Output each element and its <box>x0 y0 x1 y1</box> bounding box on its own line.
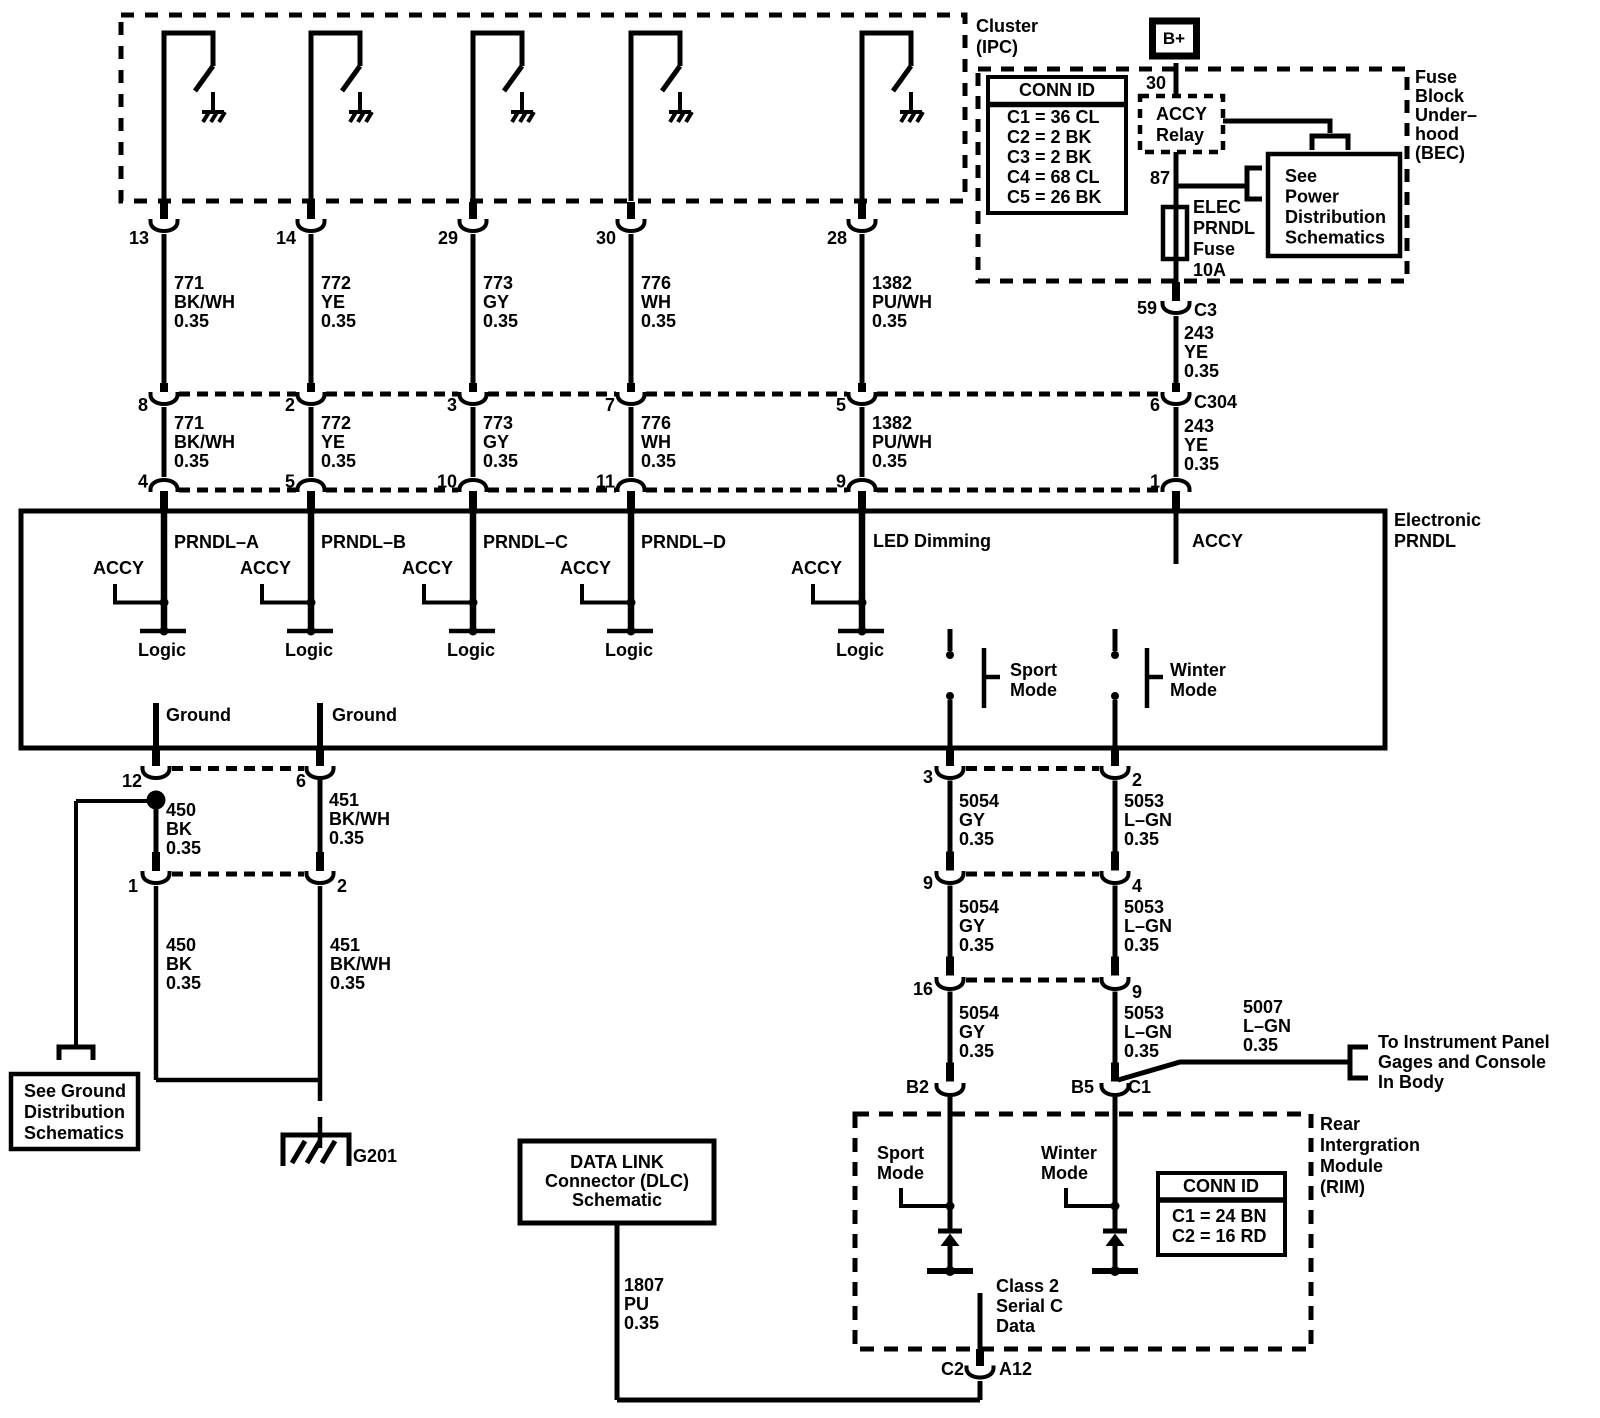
svg-text:Power: Power <box>1285 187 1339 207</box>
svg-text:BK/WH: BK/WH <box>330 954 391 974</box>
svg-text:Mode: Mode <box>877 1163 924 1183</box>
svg-text:4: 4 <box>1132 876 1142 896</box>
svg-text:6: 6 <box>1150 395 1160 415</box>
svg-text:C5 = 26 BK: C5 = 26 BK <box>1007 187 1102 207</box>
svg-text:ACCY: ACCY <box>1192 531 1243 551</box>
svg-text:Logic: Logic <box>285 640 333 660</box>
svg-text:771: 771 <box>174 413 204 433</box>
svg-text:0.35: 0.35 <box>174 311 209 331</box>
svg-text:0.35: 0.35 <box>641 451 676 471</box>
svg-text:0.35: 0.35 <box>1124 829 1159 849</box>
svg-text:30: 30 <box>596 228 616 248</box>
svg-text:L–GN: L–GN <box>1124 1022 1172 1042</box>
svg-text:PRNDL: PRNDL <box>1394 531 1456 551</box>
svg-text:1382: 1382 <box>872 413 912 433</box>
svg-text:BK: BK <box>166 819 192 839</box>
svg-text:B+: B+ <box>1163 29 1185 48</box>
svg-text:0.35: 0.35 <box>321 451 356 471</box>
svg-text:771: 771 <box>174 273 204 293</box>
svg-text:Class 2: Class 2 <box>996 1276 1059 1296</box>
svg-text:BK: BK <box>166 954 192 974</box>
svg-text:Connector (DLC): Connector (DLC) <box>545 1171 689 1191</box>
svg-text:C1 = 36 CL: C1 = 36 CL <box>1007 107 1100 127</box>
svg-text:Logic: Logic <box>447 640 495 660</box>
svg-text:C2: C2 <box>941 1359 964 1379</box>
svg-text:YE: YE <box>1184 342 1208 362</box>
svg-text:To Instrument Panel: To Instrument Panel <box>1378 1032 1550 1052</box>
svg-text:0.35: 0.35 <box>1184 361 1219 381</box>
svg-text:772: 772 <box>321 413 351 433</box>
svg-text:14: 14 <box>276 228 296 248</box>
svg-text:5053: 5053 <box>1124 1003 1164 1023</box>
svg-text:16: 16 <box>913 979 933 999</box>
svg-text:PRNDL–C: PRNDL–C <box>483 532 568 552</box>
svg-text:6: 6 <box>296 771 306 791</box>
svg-text:Logic: Logic <box>138 640 186 660</box>
svg-text:YE: YE <box>1184 435 1208 455</box>
svg-text:29: 29 <box>438 228 458 248</box>
svg-text:CONN ID: CONN ID <box>1019 80 1095 100</box>
svg-text:0.35: 0.35 <box>1184 454 1219 474</box>
svg-text:772: 772 <box>321 273 351 293</box>
svg-text:GY: GY <box>483 432 509 452</box>
svg-text:5: 5 <box>285 472 295 492</box>
svg-text:PU/WH: PU/WH <box>872 432 932 452</box>
svg-text:776: 776 <box>641 273 671 293</box>
svg-text:Rear: Rear <box>1320 1114 1360 1134</box>
svg-text:WH: WH <box>641 432 671 452</box>
svg-text:0.35: 0.35 <box>959 1041 994 1061</box>
svg-text:243: 243 <box>1184 323 1214 343</box>
svg-text:0.35: 0.35 <box>166 838 201 858</box>
svg-text:0.35: 0.35 <box>174 451 209 471</box>
svg-text:Electronic: Electronic <box>1394 510 1481 530</box>
svg-text:PRNDL–B: PRNDL–B <box>321 532 406 552</box>
svg-text:ACCY: ACCY <box>560 558 611 578</box>
svg-text:2: 2 <box>1132 770 1142 790</box>
svg-text:9: 9 <box>836 472 846 492</box>
svg-text:0.35: 0.35 <box>483 311 518 331</box>
svg-text:Ground: Ground <box>166 705 231 725</box>
svg-text:5007: 5007 <box>1243 997 1283 1017</box>
svg-text:0.35: 0.35 <box>1124 935 1159 955</box>
svg-text:0.35: 0.35 <box>330 973 365 993</box>
svg-text:L–GN: L–GN <box>1124 810 1172 830</box>
svg-text:451: 451 <box>329 790 359 810</box>
svg-text:Intergration: Intergration <box>1320 1135 1420 1155</box>
svg-text:10A: 10A <box>1193 260 1226 280</box>
svg-text:LED Dimming: LED Dimming <box>873 531 991 551</box>
svg-text:YE: YE <box>321 432 345 452</box>
svg-text:5054: 5054 <box>959 791 999 811</box>
svg-text:28: 28 <box>827 228 847 248</box>
svg-text:451: 451 <box>330 935 360 955</box>
svg-text:Under–: Under– <box>1415 105 1477 125</box>
svg-text:GY: GY <box>959 810 985 830</box>
svg-text:0.35: 0.35 <box>959 829 994 849</box>
svg-text:12: 12 <box>122 771 142 791</box>
svg-text:Cluster: Cluster <box>976 16 1038 36</box>
svg-text:243: 243 <box>1184 416 1214 436</box>
svg-text:Sport: Sport <box>1010 660 1057 680</box>
svg-text:B5: B5 <box>1071 1077 1094 1097</box>
svg-text:Logic: Logic <box>605 640 653 660</box>
svg-text:ELEC: ELEC <box>1193 197 1241 217</box>
svg-text:5054: 5054 <box>959 1003 999 1023</box>
svg-text:Serial C: Serial C <box>996 1296 1063 1316</box>
svg-text:Winter: Winter <box>1041 1143 1097 1163</box>
svg-text:2: 2 <box>337 876 347 896</box>
svg-text:(RIM): (RIM) <box>1320 1177 1365 1197</box>
svg-text:1382: 1382 <box>872 273 912 293</box>
svg-text:11: 11 <box>596 472 615 492</box>
svg-text:BK/WH: BK/WH <box>174 292 235 312</box>
svg-text:450: 450 <box>166 800 196 820</box>
svg-text:C3: C3 <box>1194 300 1217 320</box>
svg-text:0.35: 0.35 <box>483 451 518 471</box>
svg-text:5054: 5054 <box>959 897 999 917</box>
svg-text:4: 4 <box>138 472 148 492</box>
svg-text:Block: Block <box>1415 86 1465 106</box>
svg-text:A12: A12 <box>999 1359 1032 1379</box>
svg-text:10: 10 <box>437 472 457 492</box>
svg-text:Ground: Ground <box>332 705 397 725</box>
svg-text:L–GN: L–GN <box>1124 916 1172 936</box>
svg-text:Fuse: Fuse <box>1415 67 1457 87</box>
svg-text:C2 = 16 RD: C2 = 16 RD <box>1172 1226 1267 1246</box>
svg-text:1807: 1807 <box>624 1275 664 1295</box>
svg-text:ACCY: ACCY <box>240 558 291 578</box>
svg-text:773: 773 <box>483 273 513 293</box>
svg-text:Distribution: Distribution <box>1285 207 1386 227</box>
svg-text:PRNDL–D: PRNDL–D <box>641 532 726 552</box>
svg-text:Relay: Relay <box>1156 125 1204 145</box>
svg-text:See Ground: See Ground <box>24 1081 126 1101</box>
svg-text:Mode: Mode <box>1041 1163 1088 1183</box>
svg-text:GY: GY <box>959 916 985 936</box>
svg-text:ACCY: ACCY <box>791 558 842 578</box>
svg-text:Mode: Mode <box>1170 680 1217 700</box>
svg-text:3: 3 <box>447 395 457 415</box>
svg-text:Mode: Mode <box>1010 680 1057 700</box>
svg-text:5053: 5053 <box>1124 791 1164 811</box>
svg-text:C304: C304 <box>1194 392 1237 412</box>
svg-text:13: 13 <box>129 228 149 248</box>
svg-text:3: 3 <box>923 767 933 787</box>
svg-text:PRNDL–A: PRNDL–A <box>174 532 259 552</box>
svg-text:C4 = 68 CL: C4 = 68 CL <box>1007 167 1100 187</box>
svg-text:WH: WH <box>641 292 671 312</box>
svg-text:Schematics: Schematics <box>1285 228 1385 248</box>
svg-text:Schematics: Schematics <box>24 1123 124 1143</box>
svg-text:C1: C1 <box>1128 1077 1151 1097</box>
svg-text:59: 59 <box>1137 298 1157 318</box>
svg-text:L–GN: L–GN <box>1243 1016 1291 1036</box>
svg-text:PU/WH: PU/WH <box>872 292 932 312</box>
svg-text:(BEC): (BEC) <box>1415 143 1465 163</box>
svg-text:CONN ID: CONN ID <box>1183 1176 1259 1196</box>
svg-text:0.35: 0.35 <box>166 973 201 993</box>
svg-text:Fuse: Fuse <box>1193 239 1235 259</box>
svg-text:87: 87 <box>1150 168 1170 188</box>
svg-text:30: 30 <box>1146 73 1166 93</box>
svg-text:B2: B2 <box>906 1077 929 1097</box>
svg-text:PU: PU <box>624 1294 649 1314</box>
svg-text:0.35: 0.35 <box>641 311 676 331</box>
svg-text:773: 773 <box>483 413 513 433</box>
svg-text:1: 1 <box>1150 472 1160 492</box>
svg-text:C3 = 2 BK: C3 = 2 BK <box>1007 147 1092 167</box>
svg-text:BK/WH: BK/WH <box>329 809 390 829</box>
svg-text:450: 450 <box>166 935 196 955</box>
svg-text:ACCY: ACCY <box>1156 104 1207 124</box>
svg-text:0.35: 0.35 <box>624 1313 659 1333</box>
svg-text:0.35: 0.35 <box>1243 1035 1278 1055</box>
svg-text:hood: hood <box>1415 124 1459 144</box>
svg-text:ACCY: ACCY <box>402 558 453 578</box>
svg-text:G201: G201 <box>353 1146 397 1166</box>
svg-text:1: 1 <box>128 876 138 896</box>
svg-text:0.35: 0.35 <box>329 828 364 848</box>
svg-text:YE: YE <box>321 292 345 312</box>
svg-text:GY: GY <box>959 1022 985 1042</box>
svg-text:0.35: 0.35 <box>872 311 907 331</box>
svg-text:8: 8 <box>138 395 148 415</box>
svg-text:5053: 5053 <box>1124 897 1164 917</box>
svg-text:PRNDL: PRNDL <box>1193 218 1255 238</box>
svg-text:0.35: 0.35 <box>872 451 907 471</box>
svg-text:Gages and Console: Gages and Console <box>1378 1052 1546 1072</box>
svg-text:In Body: In Body <box>1378 1072 1444 1092</box>
svg-text:BK/WH: BK/WH <box>174 432 235 452</box>
svg-text:9: 9 <box>923 873 933 893</box>
svg-text:GY: GY <box>483 292 509 312</box>
svg-text:9: 9 <box>1132 982 1142 1002</box>
svg-text:See: See <box>1285 166 1317 186</box>
svg-text:0.35: 0.35 <box>959 935 994 955</box>
svg-text:0.35: 0.35 <box>321 311 356 331</box>
svg-text:Sport: Sport <box>877 1143 924 1163</box>
svg-text:Logic: Logic <box>836 640 884 660</box>
svg-text:Module: Module <box>1320 1156 1383 1176</box>
svg-text:Data: Data <box>996 1316 1036 1336</box>
svg-text:Winter: Winter <box>1170 660 1226 680</box>
svg-text:Distribution: Distribution <box>24 1102 125 1122</box>
svg-text:Schematic: Schematic <box>572 1190 662 1210</box>
svg-text:7: 7 <box>605 395 615 415</box>
svg-text:(IPC): (IPC) <box>976 37 1018 57</box>
svg-text:2: 2 <box>285 395 295 415</box>
svg-text:C2 = 2 BK: C2 = 2 BK <box>1007 127 1092 147</box>
svg-text:5: 5 <box>836 395 846 415</box>
svg-text:C1 = 24 BN: C1 = 24 BN <box>1172 1206 1267 1226</box>
svg-text:ACCY: ACCY <box>93 558 144 578</box>
svg-text:DATA LINK: DATA LINK <box>570 1152 664 1172</box>
svg-text:776: 776 <box>641 413 671 433</box>
svg-text:0.35: 0.35 <box>1124 1041 1159 1061</box>
